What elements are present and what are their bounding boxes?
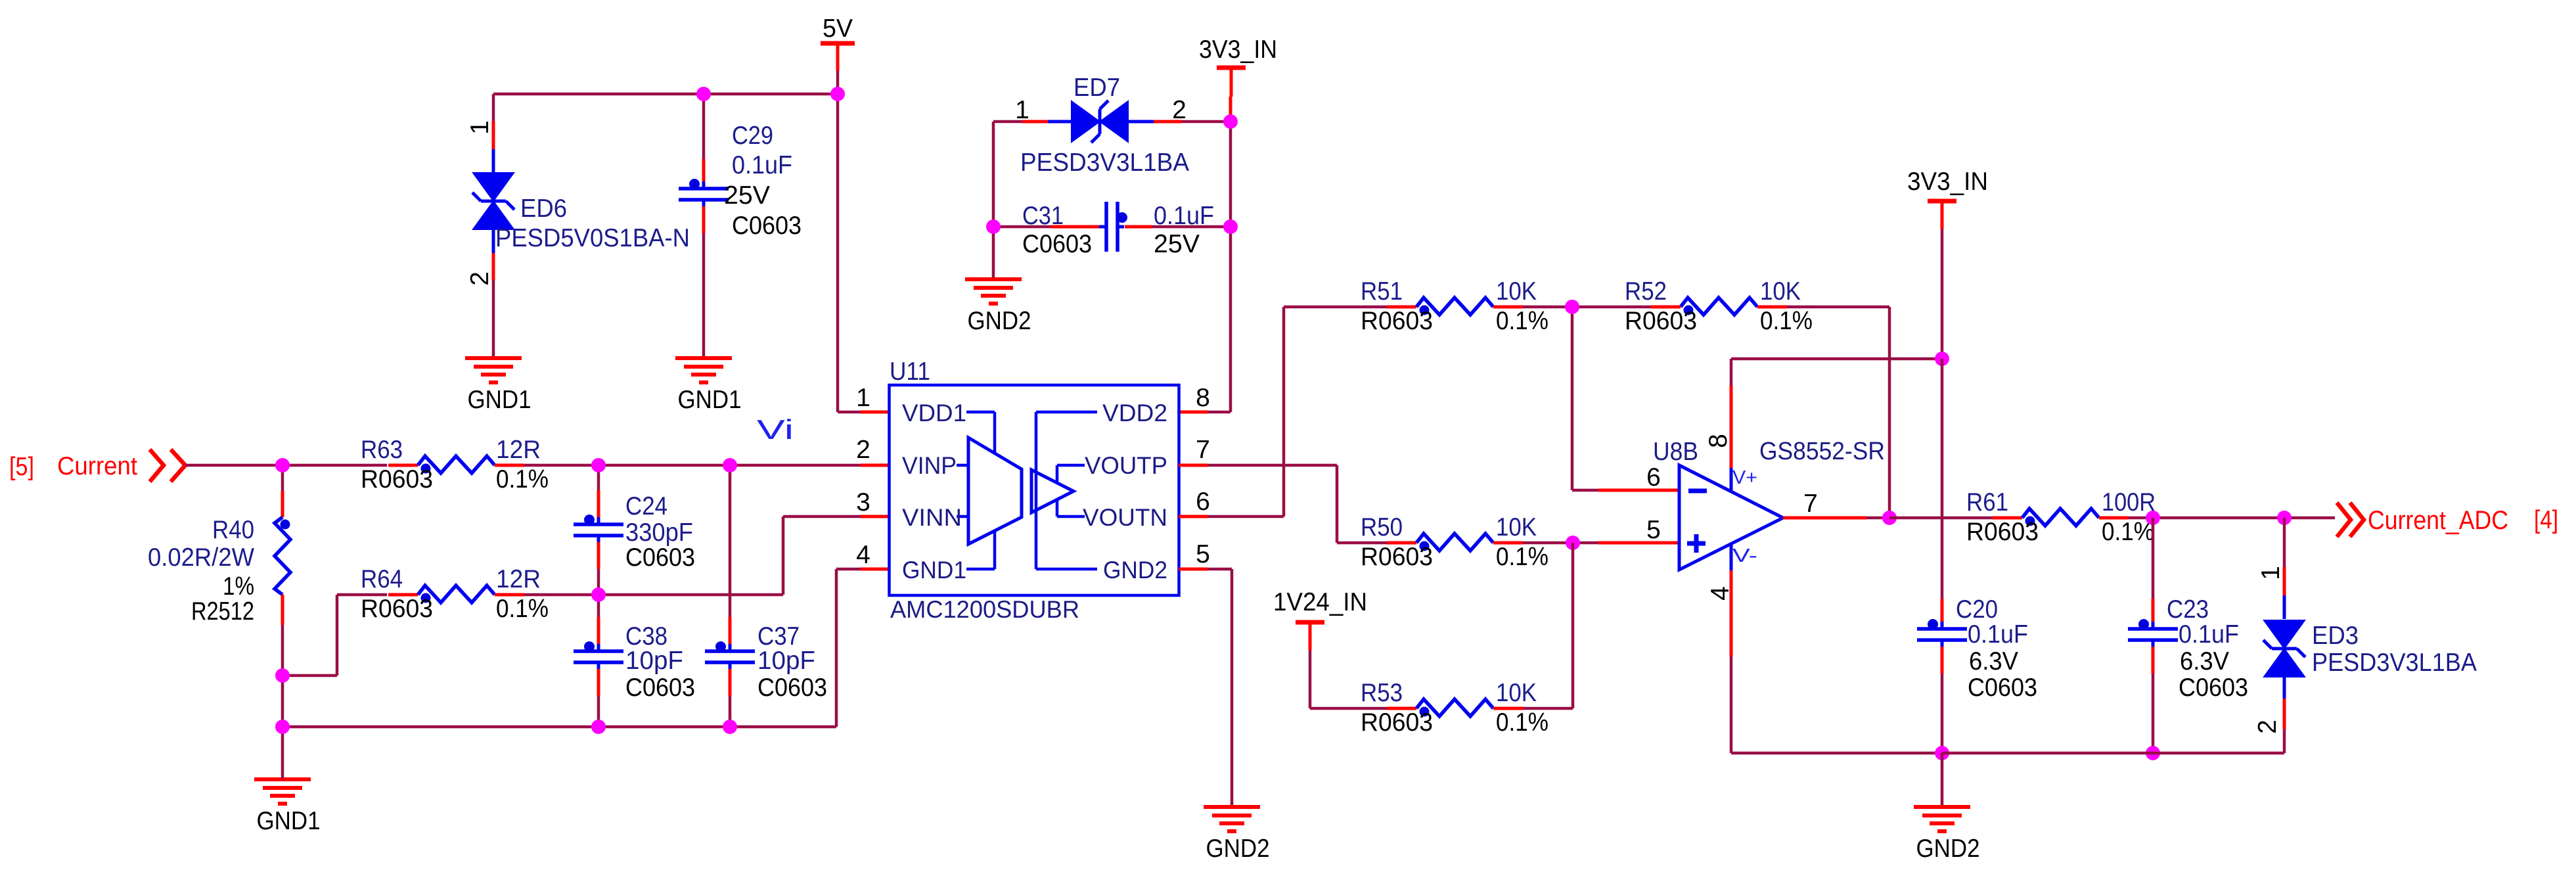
net flag Current_ADC output <box>2337 503 2351 537</box>
svg-text:0.1%: 0.1% <box>496 595 549 623</box>
ground GND1 <box>465 356 522 360</box>
node rail-C38 junction <box>591 720 606 734</box>
capacitor C37 10pF <box>705 649 755 653</box>
svg-text:C0603: C0603 <box>625 543 695 572</box>
svg-text:R0603: R0603 <box>1966 518 2039 546</box>
svg-text:[5]: [5] <box>9 453 34 481</box>
node R64-C24C38 junction <box>591 587 606 602</box>
wire C29 branch <box>702 94 706 159</box>
capacitor C38 10pF <box>574 649 623 653</box>
svg-text:ED6: ED6 <box>520 195 567 223</box>
svg-text:R0603: R0603 <box>361 595 433 623</box>
wire U11 pin 6 up to R51 <box>1179 515 1208 518</box>
svg-text:330pF: 330pF <box>625 518 693 547</box>
op-amp U8B GS8552-SR <box>1679 465 1783 570</box>
svg-text:2: 2 <box>466 271 494 286</box>
wire 5V vertical to U11 pin1 <box>836 94 840 412</box>
node ED3 junction <box>2277 511 2292 525</box>
ground GND2 <box>1914 805 1970 809</box>
wire input row <box>185 464 387 467</box>
svg-text:GND2: GND2 <box>1916 835 1980 863</box>
wire ED3 pin 1 <box>2283 518 2286 567</box>
svg-text:10K: 10K <box>1760 277 1801 306</box>
svg-text:R0603: R0603 <box>1361 708 1433 737</box>
svg-text:1%: 1% <box>223 572 254 601</box>
svg-text:GND1: GND1 <box>468 386 531 414</box>
svg-text:0.1uF: 0.1uF <box>732 151 792 179</box>
op-amp U11 AMC1200SDUBR isolation amplifier <box>890 385 1179 595</box>
svg-text:U8B: U8B <box>1653 438 1698 466</box>
node output-feedback junction <box>1882 511 1897 525</box>
diode ED3 PESD3V3L1BA <box>2265 621 2303 647</box>
svg-text:0.1%: 0.1% <box>496 465 549 493</box>
svg-text:VINP: VINP <box>902 452 957 479</box>
node rail-GND1 junction <box>275 720 290 734</box>
svg-text:5: 5 <box>1646 516 1661 544</box>
node input-R40 junction <box>275 458 290 472</box>
svg-text:8: 8 <box>1196 384 1210 412</box>
svg-text:C31: C31 <box>1022 202 1064 230</box>
wire U8B output pin 7 <box>1783 516 1866 520</box>
wire bottom-right ground rail <box>1942 752 2284 755</box>
wire 5V top rail <box>493 93 838 96</box>
svg-text:C23: C23 <box>2167 595 2209 624</box>
svg-text:PESD3V3L1BA: PESD3V3L1BA <box>2312 649 2477 677</box>
svg-text:VOUTP: VOUTP <box>1085 452 1167 479</box>
ground GND2 <box>965 277 1022 281</box>
node ED7-3V3 junction <box>1223 114 1238 129</box>
node C31-3V3 junction <box>1223 219 1238 234</box>
capacitor C31 <box>1104 202 1108 252</box>
wire R51R52 node down to minus input <box>1571 307 1574 490</box>
svg-text:10K: 10K <box>1496 679 1537 707</box>
svg-text:R0603: R0603 <box>1625 307 1697 335</box>
svg-text:5: 5 <box>1196 540 1210 568</box>
svg-text:C0603: C0603 <box>1968 674 2037 702</box>
svg-text:GND1: GND1 <box>902 557 966 584</box>
svg-text:R0603: R0603 <box>361 465 433 493</box>
svg-text:R40: R40 <box>212 516 254 544</box>
node R61-C23 junction <box>2146 511 2160 525</box>
node rail-C37 junction <box>723 720 737 734</box>
wire input row after R63 <box>495 464 524 467</box>
svg-text:12R: 12R <box>496 565 541 593</box>
capacitor C23 0.1uF <box>2128 627 2178 631</box>
svg-text:R64: R64 <box>361 565 403 593</box>
svg-text:C29: C29 <box>732 122 773 150</box>
resistor R63 12R <box>418 456 495 473</box>
svg-text:6.3V: 6.3V <box>2180 647 2229 676</box>
svg-text:1: 1 <box>466 120 494 135</box>
svg-text:10K: 10K <box>1496 513 1537 541</box>
svg-text:2: 2 <box>856 436 870 464</box>
svg-text:R2512: R2512 <box>191 597 254 626</box>
svg-text:R53: R53 <box>1361 679 1403 707</box>
svg-text:R51: R51 <box>1361 277 1403 306</box>
svg-text:3V3_IN: 3V3_IN <box>1907 168 1988 196</box>
svg-text:R52: R52 <box>1625 277 1667 306</box>
svg-text:1: 1 <box>2257 566 2285 580</box>
wire C37 column <box>729 465 732 617</box>
resistor R50 10K <box>1416 534 1493 551</box>
svg-text:V+: V+ <box>1732 467 1757 488</box>
resistor R53 10K <box>1416 699 1493 716</box>
svg-text:ED3: ED3 <box>2312 622 2359 650</box>
svg-text:100R: 100R <box>2102 488 2156 516</box>
svg-text:4: 4 <box>856 541 870 569</box>
svg-text:3: 3 <box>856 488 870 516</box>
svg-text:0.1uF: 0.1uF <box>1968 620 2028 649</box>
svg-text:0.1%: 0.1% <box>1760 307 1813 335</box>
capacitor C24 330pF <box>574 522 623 526</box>
svg-text:0.02R/2W: 0.02R/2W <box>148 543 254 572</box>
wire 1V24_IN to R53 <box>1309 651 1312 708</box>
wire C29 to GND1 <box>702 206 706 233</box>
svg-text:25V: 25V <box>724 181 770 210</box>
node input-C24 junction <box>591 458 606 472</box>
wire R52 to output node <box>1757 306 1787 309</box>
svg-text:6.3V: 6.3V <box>1969 647 2018 676</box>
svg-text:10pF: 10pF <box>625 647 683 675</box>
wire ED3 pin 2 <box>2283 676 2286 699</box>
capacitor C29 <box>679 187 729 191</box>
svg-text:[4]: [4] <box>2534 506 2558 534</box>
node 5V-C29 junction <box>696 87 711 101</box>
svg-text:GND1: GND1 <box>678 386 742 414</box>
wire ED6 pin 1 <box>492 94 495 121</box>
svg-text:6: 6 <box>1196 488 1210 516</box>
svg-text:PESD3V3L1BA: PESD3V3L1BA <box>1020 149 1189 177</box>
svg-text:0.1%: 0.1% <box>2102 518 2154 546</box>
svg-text:6: 6 <box>1646 463 1661 492</box>
wire R64 elbow <box>282 674 337 677</box>
svg-text:0.1%: 0.1% <box>1496 543 1548 571</box>
svg-text:GND2: GND2 <box>1206 835 1270 863</box>
svg-text:Current: Current <box>57 452 137 480</box>
svg-text:0.1%: 0.1% <box>1496 708 1548 737</box>
svg-text:PESD5V0S1BA-N: PESD5V0S1BA-N <box>495 224 690 252</box>
wire R64 row to VINN <box>495 593 524 597</box>
svg-text:VDD1: VDD1 <box>902 400 966 426</box>
node C31-GND2 junction <box>986 219 1001 234</box>
svg-text:7: 7 <box>1196 436 1210 464</box>
wire R51-R52 <box>1493 306 1523 309</box>
svg-text:10pF: 10pF <box>757 647 815 675</box>
svg-text:0.1uF: 0.1uF <box>2179 620 2239 649</box>
node rail-GND2 junction <box>1935 746 1949 760</box>
wire GND2 column left <box>992 122 995 279</box>
wire U11 pin 7 to R50 <box>1179 464 1208 467</box>
svg-text:R0603: R0603 <box>1361 307 1433 335</box>
svg-text:Vi: Vi <box>757 414 794 445</box>
svg-text:7: 7 <box>1803 490 1818 518</box>
wire output to R61 <box>1889 516 1993 520</box>
svg-text:1: 1 <box>1015 96 1029 124</box>
ground GND1 <box>254 777 311 781</box>
wire R40 column top <box>281 465 284 491</box>
wire bottom-left ground rail <box>282 725 836 729</box>
wire R50 to plus input <box>1493 541 1523 545</box>
svg-text:VOUTN: VOUTN <box>1083 504 1167 531</box>
wire R61 to Current_ADC <box>2099 516 2129 520</box>
svg-text:VDD2: VDD2 <box>1102 400 1167 426</box>
svg-text:C0603: C0603 <box>1022 230 1092 258</box>
wire ED6 pin 2 <box>492 228 495 253</box>
diode ED7 PESD3V3L1BA <box>1072 103 1098 141</box>
power flag 1V24_IN <box>1296 620 1324 625</box>
svg-text:ED7: ED7 <box>1073 74 1120 102</box>
svg-text:C0603: C0603 <box>625 674 695 702</box>
svg-text:R50: R50 <box>1361 513 1403 541</box>
resistor R51 10K <box>1416 298 1493 315</box>
power flag 3V3_IN (top) <box>1217 66 1246 70</box>
svg-text:C24: C24 <box>625 492 667 520</box>
svg-text:GND1: GND1 <box>257 807 321 835</box>
svg-text:8: 8 <box>1704 434 1732 448</box>
ground GND1 <box>675 356 732 360</box>
svg-text:25V: 25V <box>1154 230 1200 258</box>
svg-text:2: 2 <box>1172 96 1186 124</box>
wire R40 column bottom <box>281 595 284 625</box>
wire U11 pin 5 to GND2 <box>1179 568 1208 571</box>
svg-text:R61: R61 <box>1966 488 2008 516</box>
svg-text:2: 2 <box>2253 720 2282 734</box>
svg-text:R0603: R0603 <box>1361 543 1433 571</box>
svg-text:C20: C20 <box>1956 595 1998 624</box>
wire C23 column <box>2152 518 2155 599</box>
node R40-R64 junction <box>275 668 290 683</box>
svg-text:10K: 10K <box>1496 277 1537 306</box>
svg-text:1V24_IN: 1V24_IN <box>1273 588 1367 616</box>
wire ED7 pin 1 to GND2 column <box>993 120 1022 124</box>
wire R53 up to plus node <box>1493 707 1523 710</box>
svg-text:VINN: VINN <box>902 504 962 531</box>
svg-text:C0603: C0603 <box>2179 674 2248 702</box>
node 3V3-V+ junction <box>1935 352 1949 366</box>
svg-text:0.1%: 0.1% <box>1496 307 1548 335</box>
svg-text:GND2: GND2 <box>968 307 1031 335</box>
diode ED6 PESD5V0S1BA-N <box>474 173 512 200</box>
node R50-R53 junction <box>1566 536 1580 550</box>
wire 3V3_IN column <box>1229 97 1232 122</box>
svg-text:3V3_IN: 3V3_IN <box>1199 35 1277 64</box>
power flag 5V <box>821 41 855 46</box>
svg-text:GS8552-SR: GS8552-SR <box>1759 438 1885 465</box>
svg-text:5V: 5V <box>823 14 853 43</box>
wire C24/C38 column <box>597 465 600 490</box>
svg-text:R63: R63 <box>361 436 403 464</box>
wire 3V3_IN right column / C20 <box>1941 229 1944 359</box>
svg-text:C0603: C0603 <box>732 212 802 240</box>
svg-text:GND2: GND2 <box>1103 557 1167 584</box>
wire C31 row right <box>1125 225 1152 229</box>
node 5V stub junction <box>830 87 845 101</box>
wire U8B pin 4 V- to ground rail <box>1730 543 1733 570</box>
node rail-C23 junction <box>2146 746 2160 760</box>
resistor R52 10K <box>1681 298 1757 315</box>
svg-text:Current_ADC: Current_ADC <box>2368 506 2508 535</box>
svg-text:1: 1 <box>856 384 870 412</box>
resistor R64 12R <box>418 585 495 603</box>
node R51-R52 junction <box>1565 300 1579 314</box>
svg-text:U11: U11 <box>890 357 930 386</box>
svg-text:12R: 12R <box>496 436 541 464</box>
node input-C37 junction <box>723 458 737 472</box>
svg-text:V-: V- <box>1732 545 1757 566</box>
svg-text:C0603: C0603 <box>757 674 827 702</box>
resistor R40 0.02R/2W shunt <box>275 517 290 595</box>
wire U8B pin 8 V+ supply <box>1730 468 1733 491</box>
resistor R61 100R <box>2022 509 2099 526</box>
capacitor C20 0.1uF <box>1917 627 1967 631</box>
wire ED7 pin 2 <box>1127 120 1154 124</box>
wire C31 row left <box>993 225 1051 229</box>
ground GND2 <box>1204 805 1260 809</box>
svg-text:AMC1200SDUBR: AMC1200SDUBR <box>890 596 1079 623</box>
power flag 3V3_IN (right) <box>1928 199 1956 204</box>
